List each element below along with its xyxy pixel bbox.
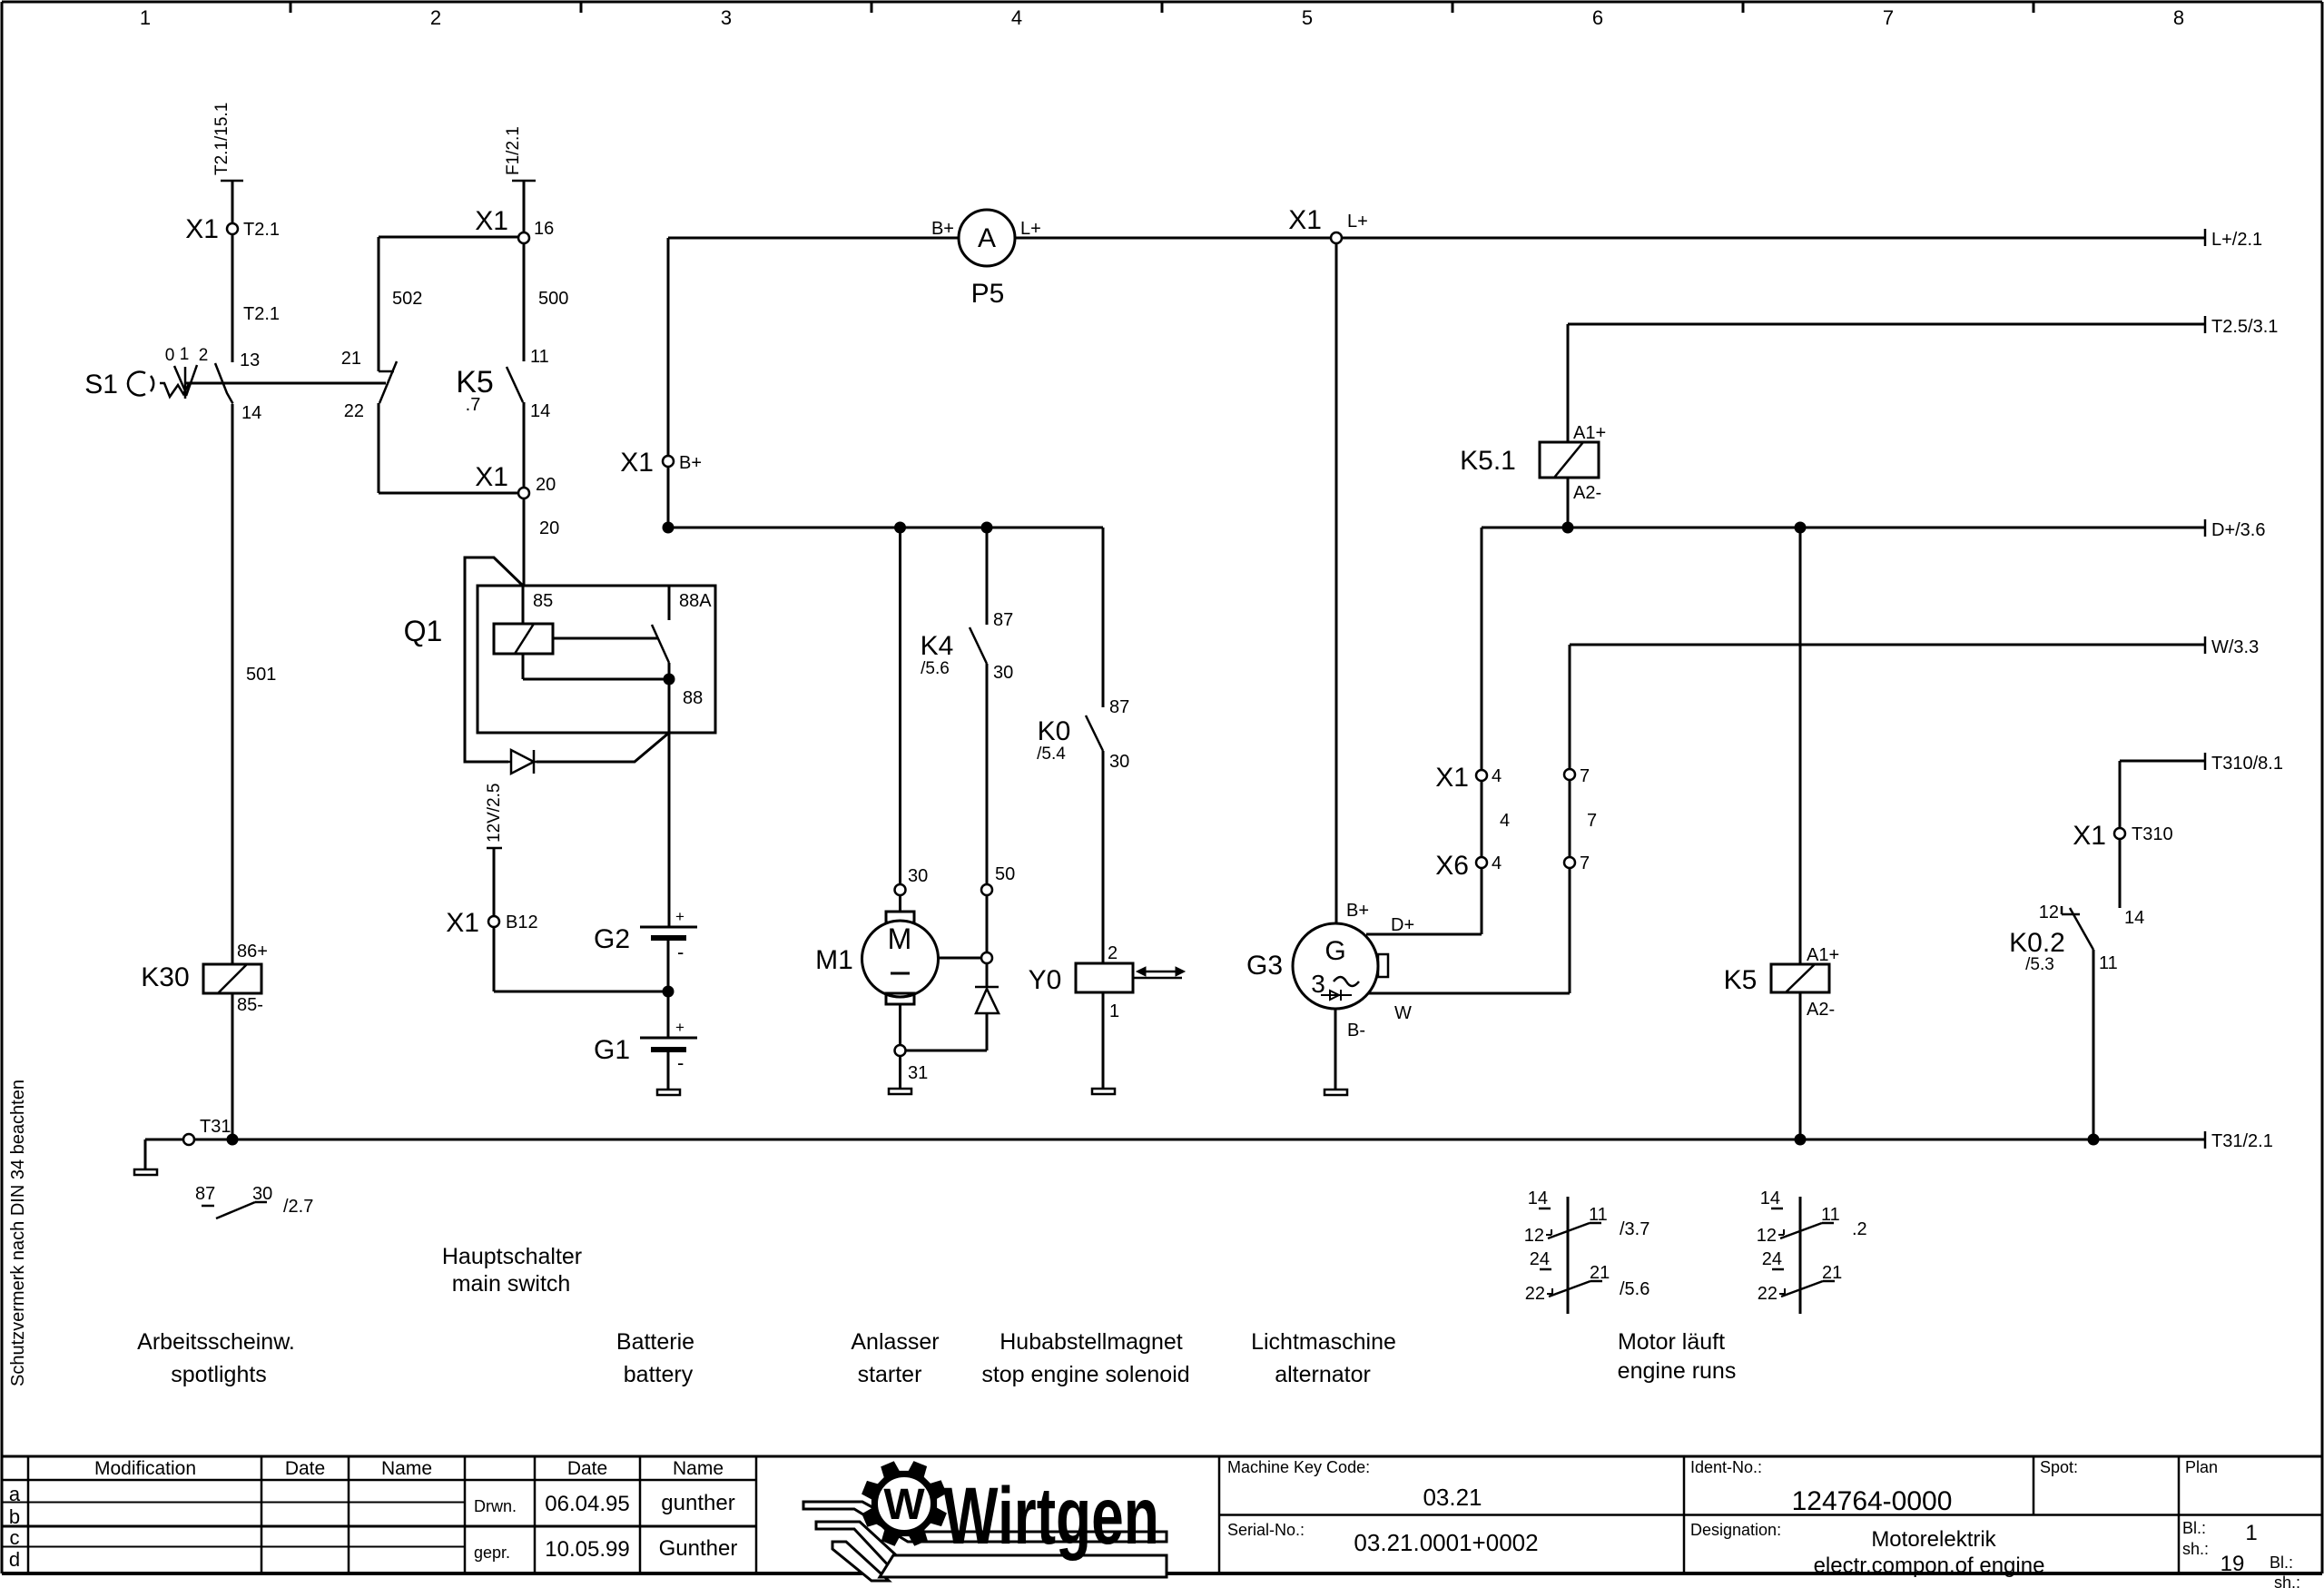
svg-text:X1: X1: [446, 908, 479, 938]
diode D M1: [975, 963, 999, 1013]
svg-text:2: 2: [199, 346, 209, 365]
caption Hubabstellmagnet stop engine solenoid: [981, 1329, 1189, 1387]
svg-text:K5: K5: [1724, 965, 1758, 995]
svg-text:/5.6: /5.6: [1620, 1279, 1649, 1299]
svg-text:Date: Date: [567, 1458, 607, 1479]
wire D+ down: [1481, 528, 1483, 770]
svg-text:P5: P5: [971, 279, 1005, 309]
svg-text:86+: 86+: [237, 942, 268, 962]
svg-text:+: +: [675, 908, 684, 925]
svg-text:Machine Key Code:: Machine Key Code:: [1227, 1458, 1370, 1476]
svg-text:T2.1: T2.1: [243, 220, 280, 240]
svg-text:20: 20: [536, 475, 556, 495]
junction dot K5 on T31: [1795, 1134, 1807, 1146]
relay coil K5.1: [1460, 442, 1601, 503]
svg-text:Drwn.: Drwn.: [474, 1497, 517, 1515]
svg-text:G3: G3: [1246, 951, 1283, 981]
svg-text:Ident-No.:: Ident-No.:: [1690, 1458, 1762, 1476]
svg-text:X1: X1: [2073, 821, 2106, 851]
bus corner to K0: [1103, 528, 1129, 717]
actuator arrow Y0: [1134, 967, 1185, 978]
bus W: [1570, 644, 2205, 646]
svg-text:12: 12: [2039, 902, 2059, 922]
wire diode to 31: [905, 1013, 987, 1050]
svg-text:7: 7: [1580, 853, 1590, 873]
wire K0.2 to T31 bus: [2093, 950, 2095, 1139]
svg-text:1: 1: [1109, 1001, 1119, 1021]
svg-text:2: 2: [1108, 943, 1118, 963]
svg-text:G2: G2: [594, 924, 630, 954]
svg-text:K4: K4: [921, 631, 954, 661]
svg-text:.7: .7: [466, 395, 481, 415]
contact K4 87/30: [921, 627, 1014, 683]
svg-text:88: 88: [683, 688, 703, 708]
wire 500: [524, 243, 568, 361]
svg-text:b: b: [9, 1505, 20, 1528]
wire K0 to Y0: [1103, 751, 1118, 963]
svg-text:battery: battery: [624, 1362, 694, 1387]
svg-text:1: 1: [2245, 1521, 2257, 1545]
contact cross-reference K5.1: [1524, 1189, 1650, 1314]
svg-text:5: 5: [1302, 6, 1313, 29]
svg-text:Schutzvermerk nach DIN 34 beac: Schutzvermerk nach DIN 34 beachten: [8, 1080, 28, 1386]
wire bus top corner: [668, 237, 959, 240]
terminal X1:L+: [1288, 205, 1368, 243]
net label L+/2.1: [2205, 229, 2262, 250]
svg-text:Y0: Y0: [1029, 965, 1062, 995]
contact K5 21/22 NC: [341, 349, 397, 421]
wire M1 to 31: [899, 1004, 901, 1045]
title block machine key code: [1227, 1458, 1482, 1511]
svg-text:X1: X1: [475, 206, 508, 236]
svg-text:3: 3: [1311, 970, 1325, 998]
svg-text:12: 12: [1757, 1226, 1777, 1246]
terminal T31: [183, 1117, 231, 1145]
svg-text:30: 30: [1109, 752, 1129, 772]
title block plan: [2185, 1458, 2218, 1476]
svg-text:3: 3: [721, 6, 732, 29]
terminal X1:B+ labels: [620, 448, 702, 478]
svg-text:7: 7: [1883, 6, 1894, 29]
svg-text:Plan: Plan: [2185, 1458, 2218, 1476]
svg-text:87: 87: [195, 1184, 215, 1204]
svg-text:Motor läuft: Motor läuft: [1618, 1329, 1725, 1355]
wire to K4: [987, 528, 1013, 630]
title block gepr row: [474, 1536, 737, 1562]
svg-text:4: 4: [1492, 766, 1502, 786]
svg-text:Hauptschalter: Hauptschalter: [442, 1244, 582, 1269]
svg-text:88A: 88A: [679, 591, 712, 611]
title block ident no: [1690, 1458, 1952, 1516]
caption Lichtmaschine alternator: [1251, 1329, 1396, 1387]
switch S1 contact 13-14: [215, 350, 261, 423]
svg-text:B12: B12: [506, 912, 538, 932]
terminal X1:4: [1435, 763, 1502, 793]
svg-text:124764-0000: 124764-0000: [1792, 1486, 1953, 1516]
svg-text:stop engine solenoid: stop engine solenoid: [981, 1362, 1189, 1387]
svg-text:21: 21: [1822, 1263, 1842, 1283]
wire K5 coil feed: [1800, 528, 1839, 965]
svg-text:A: A: [978, 223, 996, 253]
svg-text:S1: S1: [84, 370, 118, 399]
terminal M1:31: [895, 1045, 929, 1083]
svg-text:19: 19: [2221, 1552, 2245, 1576]
svg-text:Hubabstellmagnet: Hubabstellmagnet: [1000, 1329, 1183, 1355]
svg-text:03.21.0001+0002: 03.21.0001+0002: [1354, 1529, 1538, 1556]
svg-text:T31/2.1: T31/2.1: [2211, 1131, 2273, 1151]
title block grid: [2, 1456, 2322, 1573]
svg-text:G: G: [1324, 936, 1345, 966]
svg-text:501: 501: [246, 665, 276, 685]
wire 7: [1570, 780, 1597, 857]
svg-text:F1/2.1: F1/2.1: [504, 126, 523, 175]
svg-text:30: 30: [993, 663, 1013, 683]
svg-text:alternator: alternator: [1275, 1362, 1371, 1387]
svg-text:B+: B+: [931, 219, 954, 239]
svg-text:X1: X1: [1435, 763, 1469, 793]
svg-text:L+/2.1: L+/2.1: [2211, 230, 2262, 250]
ammeter P5: [931, 210, 1041, 309]
junction dot K5 coil branch: [1795, 522, 1807, 534]
wire to M1 30: [899, 528, 901, 884]
wire W down: [1569, 645, 1571, 769]
ground G3 B-: [1324, 1009, 1365, 1095]
relay coil K5: [1724, 964, 1835, 1020]
wire 88 down to battery: [668, 685, 671, 927]
wire ammeter to X1: [1015, 237, 1331, 240]
svg-text:W/3.3: W/3.3: [2211, 637, 2259, 657]
svg-text:87: 87: [1109, 697, 1129, 717]
svg-text:6: 6: [1592, 6, 1603, 29]
contact K0 87/30: [1037, 715, 1129, 772]
svg-text:11: 11: [1589, 1205, 1608, 1225]
bus T2.5: [1568, 323, 2205, 326]
svg-text:Modification: Modification: [94, 1458, 196, 1479]
caption Motor läuft engine runs: [1618, 1329, 1737, 1384]
terminal X1:16: [475, 206, 554, 243]
svg-text:22: 22: [1758, 1284, 1777, 1304]
svg-text:12V/2.5: 12V/2.5: [485, 784, 504, 843]
svg-text:/3.7: /3.7: [1620, 1219, 1649, 1239]
wire X6:4 to G3 D+: [1366, 868, 1482, 934]
svg-text:4: 4: [1492, 853, 1502, 873]
wire K4 to 50: [986, 664, 989, 884]
wire L+ to border: [1342, 237, 2205, 240]
svg-text:-: -: [677, 941, 684, 963]
caption Batterie battery: [616, 1329, 694, 1387]
svg-text:/5.4: /5.4: [1037, 745, 1066, 764]
relay coil Q1 85: [494, 586, 553, 654]
svg-text:Designation:: Designation:: [1690, 1521, 1781, 1539]
alternator G3: [1246, 915, 1414, 1023]
svg-text:Wirtgen: Wirtgen: [943, 1472, 1159, 1562]
svg-text:A2-: A2-: [1807, 1000, 1835, 1020]
ground Y0: [1092, 992, 1115, 1094]
title block serial no: [1227, 1521, 1539, 1556]
svg-text:2: 2: [430, 6, 441, 29]
wire 502 down: [379, 237, 422, 371]
svg-text:/5.6: /5.6: [921, 659, 950, 678]
svg-text:T31: T31: [200, 1117, 231, 1137]
svg-text:Name: Name: [381, 1458, 432, 1479]
svg-text:85: 85: [533, 591, 553, 611]
svg-text:21: 21: [341, 349, 361, 369]
svg-text:14: 14: [2124, 908, 2144, 928]
wire B12 to battery: [494, 927, 668, 991]
svg-text:M: M: [888, 922, 912, 955]
svg-text:11: 11: [530, 347, 549, 367]
svg-text:06.04.95: 06.04.95: [545, 1492, 629, 1516]
Wirtgen logo: [803, 1462, 1167, 1581]
junction dot K5.1 A2: [1562, 522, 1574, 534]
svg-text:gepr.: gepr.: [474, 1544, 510, 1562]
terminal M1:50: [981, 864, 1015, 895]
svg-text:Spot:: Spot:: [2040, 1458, 2078, 1476]
svg-text:1: 1: [180, 345, 190, 364]
contact K0.2 changeover: [2009, 902, 2118, 974]
svg-text:Bl.:: Bl.:: [2270, 1553, 2293, 1572]
svg-text:/2.7: /2.7: [283, 1197, 313, 1217]
title block designation: [1690, 1521, 2044, 1578]
svg-text:22: 22: [1525, 1284, 1545, 1304]
wire G2 to G1: [663, 938, 675, 1038]
svg-text:14: 14: [241, 403, 261, 423]
svg-text:4: 4: [1011, 6, 1022, 29]
svg-text:T2.1: T2.1: [243, 304, 280, 324]
wire 22 down to X1:20: [379, 403, 518, 493]
svg-text:1: 1: [140, 6, 151, 29]
svg-text:7: 7: [1587, 811, 1597, 831]
ruler column ticks and numbers: [140, 2, 2184, 29]
caption Anlasser starter: [851, 1329, 939, 1387]
svg-text:03.21: 03.21: [1423, 1484, 1482, 1511]
svg-text:21: 21: [1590, 1263, 1610, 1283]
svg-text:Gunther: Gunther: [659, 1536, 738, 1561]
wire F1 to X1:16: [523, 181, 526, 232]
svg-text:X1: X1: [1288, 205, 1322, 235]
svg-text:X1: X1: [475, 462, 508, 492]
svg-text:500: 500: [538, 289, 568, 309]
svg-text:D+: D+: [1391, 915, 1414, 935]
terminal X1:B12: [446, 908, 537, 938]
svg-text:electr.compon.of engine: electr.compon.of engine: [1814, 1553, 2045, 1578]
svg-text:10.05.99: 10.05.99: [545, 1537, 629, 1562]
contact cross-reference K5: [1757, 1189, 1867, 1314]
svg-text:W: W: [1394, 1003, 1412, 1023]
svg-text:.2: .2: [1852, 1219, 1867, 1239]
wire T310: [2120, 761, 2205, 828]
svg-text:0: 0: [165, 346, 175, 365]
wire T310 to K0.2: [2120, 839, 2144, 928]
junction dot K30 on T31: [227, 1134, 239, 1146]
junction dot K4 branch: [981, 522, 993, 534]
svg-text:B+: B+: [1346, 901, 1369, 921]
ground G1: [657, 1050, 680, 1095]
svg-text:14: 14: [530, 401, 550, 421]
svg-text:87: 87: [993, 610, 1013, 630]
svg-text:Bl.:: Bl.:: [2182, 1519, 2206, 1537]
wire T2.1 down: [231, 181, 234, 226]
svg-text:16: 16: [534, 219, 554, 239]
bus D+ right segment: [1482, 527, 2205, 529]
net label W/3.3: [2205, 636, 2259, 657]
battery G2: [594, 908, 697, 963]
svg-text:starter: starter: [858, 1362, 922, 1387]
wire 501 to K30: [232, 404, 276, 964]
wire 4: [1482, 781, 1510, 857]
svg-text:B-: B-: [1347, 1021, 1365, 1041]
bus T31: [145, 1139, 2205, 1141]
svg-text:B+: B+: [679, 453, 702, 473]
junction dot K0.2 on T31: [2088, 1134, 2100, 1146]
svg-text:Serial-No.:: Serial-No.:: [1227, 1521, 1305, 1539]
svg-text:L+: L+: [1020, 219, 1041, 239]
svg-text:W: W: [883, 1481, 925, 1529]
svg-text:c: c: [10, 1526, 20, 1549]
svg-text:sh.:: sh.:: [2274, 1573, 2300, 1588]
relay Q1 outer frame: [465, 557, 669, 762]
switch S1 ignition: [84, 345, 208, 399]
svg-text:30: 30: [908, 866, 928, 886]
svg-text:X1: X1: [620, 448, 654, 478]
wire 502 top: [379, 236, 518, 239]
svg-text:+: +: [675, 1019, 684, 1036]
svg-text:Q1: Q1: [404, 615, 443, 647]
junction dot D+ bus left: [663, 522, 675, 534]
title block header labels: [94, 1458, 724, 1479]
wire X6:7 to G3 W: [1368, 868, 1570, 993]
svg-text:K0: K0: [1038, 716, 1071, 746]
wire K30 to T31 bus: [231, 993, 234, 1139]
wire B+ vertical: [663, 238, 674, 522]
svg-text:22: 22: [344, 401, 364, 421]
terminal X1:20: [475, 462, 556, 498]
svg-text:7: 7: [1580, 766, 1590, 786]
svg-text:K0.2: K0.2: [2009, 928, 2065, 958]
svg-text:X6: X6: [1435, 851, 1469, 881]
svg-text:Batterie: Batterie: [616, 1329, 694, 1355]
net label T2.5/3.1: [2205, 316, 2278, 337]
svg-text:12: 12: [1524, 1226, 1544, 1246]
wire coil to 88: [523, 638, 669, 679]
wire K5.1 to D+ bus: [1567, 478, 1570, 522]
diode D Q1: [508, 750, 537, 774]
svg-text:24: 24: [1530, 1249, 1550, 1269]
svg-text:T2.1/15.1: T2.1/15.1: [212, 103, 231, 175]
terminal M1:30: [895, 866, 929, 895]
battery G1: [594, 1019, 697, 1074]
svg-text:24: 24: [1762, 1249, 1782, 1269]
svg-text:G1: G1: [594, 1035, 630, 1065]
svg-text:T310: T310: [2132, 824, 2173, 844]
vertical note Schutzvermerk nach DIN 34 beachten: [8, 1080, 28, 1386]
svg-text:4: 4: [1500, 811, 1510, 831]
svg-text:d: d: [9, 1548, 20, 1571]
terminal tick T2.1/15.1: [212, 103, 243, 181]
title block spot: [2040, 1458, 2078, 1476]
caption Hauptschalter main switch: [442, 1244, 582, 1297]
wire S1 row: [186, 382, 386, 385]
contact cross-reference K30 87/30: [195, 1184, 313, 1218]
terminal X1:T310: [2073, 821, 2172, 851]
svg-text:8: 8: [2173, 6, 2184, 29]
title block row letters: [9, 1483, 21, 1571]
bus D+ left segment: [668, 527, 1103, 529]
terminal X1:7: [1564, 766, 1590, 786]
net label D+/3.6: [2205, 519, 2265, 540]
terminal X6:7: [1564, 853, 1590, 873]
wire K5 to T31 bus: [1799, 992, 1802, 1139]
svg-text:30: 30: [252, 1184, 272, 1204]
junction dot M1 branch: [894, 522, 906, 534]
svg-text:T310/8.1: T310/8.1: [2211, 754, 2283, 774]
svg-text:20: 20: [539, 518, 559, 538]
terminal X6:4: [1435, 851, 1502, 881]
net label T310/8.1: [2205, 753, 2283, 774]
svg-text:Name: Name: [673, 1458, 724, 1479]
ground T31: [134, 1139, 157, 1175]
title block Drwn row: [474, 1491, 735, 1516]
svg-text:14: 14: [1528, 1189, 1548, 1208]
starter motor M1: [815, 895, 938, 1004]
svg-text:L+: L+: [1347, 212, 1368, 232]
relay coil K30: [141, 942, 268, 1015]
svg-text:T2.5/3.1: T2.5/3.1: [2211, 317, 2278, 337]
svg-text:A1+: A1+: [1573, 423, 1606, 443]
svg-text:main switch: main switch: [452, 1271, 571, 1297]
svg-text:X1: X1: [185, 214, 219, 244]
svg-text:-: -: [677, 1051, 684, 1074]
ground M1: [889, 1056, 911, 1094]
solenoid Y0: [1029, 963, 1133, 1021]
contact K5 11/14 NO: [456, 347, 550, 421]
wire 50 to solenoid node: [986, 895, 989, 952]
svg-text:M1: M1: [815, 945, 853, 975]
svg-text:Lichtmaschine: Lichtmaschine: [1251, 1329, 1396, 1355]
terminal X1:T2.1: [185, 214, 280, 244]
svg-text:11: 11: [1821, 1205, 1840, 1225]
svg-text:sh.:: sh.:: [2182, 1540, 2209, 1558]
svg-text:Motorelektrik: Motorelektrik: [1871, 1527, 1996, 1552]
svg-text:Arbeitsscheinw.: Arbeitsscheinw.: [137, 1329, 295, 1355]
svg-text:gunther: gunther: [661, 1491, 734, 1515]
wire B+ to G3: [1336, 243, 1369, 922]
svg-text:14: 14: [1760, 1189, 1780, 1208]
terminal tick 12V/2.5: [485, 784, 504, 849]
svg-text:85-: 85-: [237, 995, 263, 1015]
svg-text:31: 31: [908, 1063, 928, 1083]
caption Arbeitsscheinw. spotlights: [137, 1329, 295, 1387]
svg-text:K30: K30: [141, 962, 189, 992]
terminal M1 solenoid: [939, 952, 992, 963]
svg-text:13: 13: [240, 350, 260, 370]
svg-text:/5.3: /5.3: [2025, 955, 2054, 974]
net label T31/2.1: [2205, 1131, 2273, 1151]
svg-text:D+/3.6: D+/3.6: [2211, 520, 2265, 540]
wire T2.1 to S1: [232, 234, 280, 362]
svg-text:Anlasser: Anlasser: [851, 1329, 939, 1355]
contact Q1 88A-88: [652, 586, 712, 708]
terminal tick F1/2.1: [504, 126, 536, 181]
svg-text:a: a: [9, 1483, 21, 1505]
svg-text:A2-: A2-: [1573, 483, 1601, 503]
wire T2.5 to K5.1 coil: [1568, 324, 1606, 443]
svg-text:50: 50: [995, 864, 1015, 884]
svg-text:A1+: A1+: [1807, 945, 1839, 965]
wire B12: [493, 848, 496, 918]
wire 20 to Q1: [524, 402, 559, 586]
svg-text:spotlights: spotlights: [171, 1362, 267, 1387]
